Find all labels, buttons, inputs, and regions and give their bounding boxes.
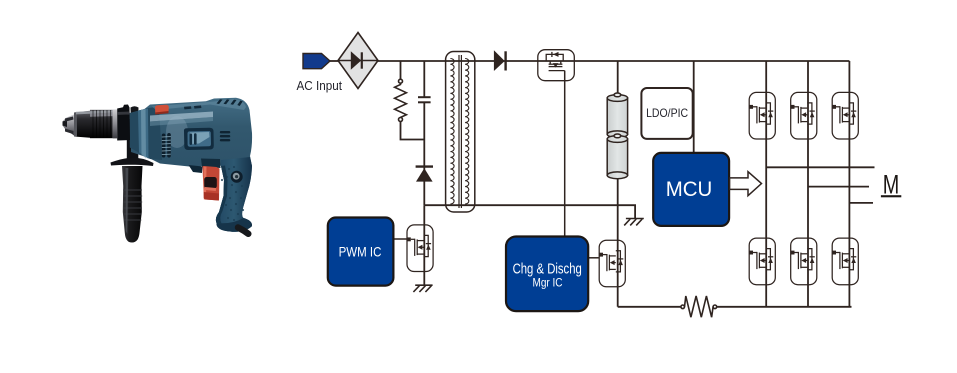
wire: bottom rail right of shunt xyxy=(716,306,851,308)
mosfet Q4 xyxy=(832,92,858,139)
svg-text:AC Input: AC Input xyxy=(297,79,343,93)
center window recess xyxy=(184,128,214,150)
mosfet Q7 xyxy=(832,238,858,285)
svg-text:PWM IC: PWM IC xyxy=(339,244,382,260)
wire: AC input stub to bridge xyxy=(329,60,338,62)
aux handle grip xyxy=(122,166,143,243)
aux handle stem xyxy=(127,119,139,161)
bridge rectifier BR1 xyxy=(338,33,378,89)
wire: phase C vertical xyxy=(848,61,850,307)
wire: battery bottom down to bottom rail xyxy=(617,174,619,307)
PWM IC block xyxy=(328,218,394,286)
arrow MCU to bridge xyxy=(730,172,762,196)
svg-text:M: M xyxy=(883,169,900,199)
chuck silver ring xyxy=(113,110,118,139)
wire: capacitor down through diode D2 to junction xyxy=(423,102,425,205)
svg-text:Mgr IC: Mgr IC xyxy=(533,276,563,290)
red trigger xyxy=(202,166,219,201)
wire: phase B vertical xyxy=(807,61,809,307)
chuck nose jaws xyxy=(63,115,75,136)
diode D2 (vertical) xyxy=(416,167,433,182)
chuck rear collar xyxy=(117,105,130,141)
ground G2 (battery rail) xyxy=(624,219,644,226)
top highlight xyxy=(152,99,246,110)
grip shading xyxy=(216,157,252,232)
svg-text:LDO/PIC: LDO/PIC xyxy=(646,107,688,120)
gear housing front cone xyxy=(130,107,163,161)
MCU block xyxy=(653,153,729,226)
chuck front sleeve xyxy=(74,111,90,138)
mosfet Q9 (Chg) xyxy=(599,240,625,287)
Chg & Dischg Mgr IC block xyxy=(506,237,588,312)
grip texture dots xyxy=(221,166,244,221)
red top button xyxy=(155,105,169,114)
wire: secondary bottom rail to ground G2 xyxy=(424,205,635,218)
wire: motor line 2 xyxy=(808,186,869,188)
aux handle wing knob xyxy=(131,106,139,121)
transformer T1 xyxy=(446,52,475,213)
wire: Chg IC gate lead xyxy=(588,257,599,259)
wire: LDO branch bus to MCU top xyxy=(693,61,695,153)
svg-text:MCU: MCU xyxy=(666,178,713,201)
AC input connector xyxy=(303,54,330,69)
capacitor C1 xyxy=(418,97,431,102)
ground G1 (below Q8) xyxy=(413,285,432,292)
mosfet Q8 (PWM) xyxy=(407,225,433,272)
left vent slots xyxy=(162,133,171,158)
drill body main housing xyxy=(131,98,252,232)
wire: resistor bottom to cap line xyxy=(401,121,425,139)
wire: main top bus xyxy=(378,60,849,62)
LDO/PIC block xyxy=(641,88,692,139)
battery BT1 xyxy=(607,93,627,179)
motor node M xyxy=(881,169,901,199)
wire: battery branch from bus xyxy=(617,61,619,95)
resistor R1 xyxy=(395,79,407,121)
right small vents xyxy=(220,131,231,141)
mosfet Q1 (top, horizontal) xyxy=(538,50,575,81)
grip button xyxy=(231,171,243,183)
wire: motor line 1 xyxy=(766,166,874,168)
top small slats xyxy=(184,105,201,109)
aux handle flange xyxy=(111,158,154,166)
wire: bus drop to resistor R1 xyxy=(400,61,402,79)
wire: junction down through PWM mosfet to ground xyxy=(423,205,425,285)
diode D3 (on bus) xyxy=(494,50,506,71)
trigger guard wedge xyxy=(189,165,203,173)
rear top diagonal vents xyxy=(217,99,243,106)
shunt resistor R2 xyxy=(681,296,717,317)
wire: phase A vertical xyxy=(765,61,767,307)
power cord xyxy=(238,228,248,234)
wire: motor line 3 xyxy=(849,202,873,204)
mosfet Q3 xyxy=(791,92,817,139)
mosfet Q5 xyxy=(749,238,775,285)
mosfet Q2 xyxy=(749,92,775,139)
mosfet Q6 xyxy=(791,238,817,285)
chuck knurled sleeve xyxy=(90,110,113,138)
wire: bus drop capacitor C1 branch xyxy=(423,61,425,97)
wire: PWM IC gate lead xyxy=(393,238,406,240)
wire: Q1 gate line down to Chg block xyxy=(564,71,566,237)
wire: bottom rail left of shunt xyxy=(618,306,682,308)
